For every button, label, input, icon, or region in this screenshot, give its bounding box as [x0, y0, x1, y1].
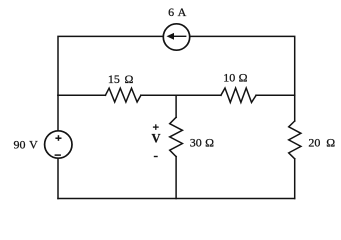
svg-text:Ω: Ω — [205, 135, 214, 149]
wire top-left segment — [58, 36, 163, 95]
svg-text:20: 20 — [308, 136, 320, 150]
wire middle center — [141, 94, 221, 96]
svg-text:90: 90 — [14, 138, 26, 152]
current source arrow shaft — [172, 35, 187, 37]
wire left above source — [57, 95, 59, 131]
svg-text:Ω: Ω — [239, 70, 248, 84]
label minus of V — [154, 156, 158, 158]
svg-text:10: 10 — [223, 70, 235, 84]
wire center bottom — [175, 157, 177, 199]
svg-text:15: 15 — [108, 72, 120, 86]
svg-text:6: 6 — [168, 5, 174, 19]
svg-text:V: V — [151, 131, 160, 145]
wire center top — [175, 95, 177, 117]
voltage source 90V circle — [45, 131, 72, 158]
resistor R 10ohm zigzag — [221, 88, 256, 102]
voltage source minus sign — [55, 154, 61, 156]
svg-text:A: A — [178, 5, 187, 19]
resistor R 20ohm zigzag — [289, 121, 301, 159]
resistor R 15ohm zigzag — [105, 88, 140, 102]
svg-text:V: V — [29, 138, 38, 152]
wire left below source — [57, 158, 59, 198]
wire right below R20 — [294, 159, 296, 199]
voltage source plus sign — [55, 135, 61, 141]
current source 6A circle — [163, 24, 189, 50]
wire middle right — [256, 94, 295, 96]
resistor R 30ohm zigzag — [170, 117, 183, 156]
svg-text:30: 30 — [190, 135, 202, 149]
label plus of V — [153, 124, 159, 130]
wire right above R20 — [294, 95, 296, 121]
wire middle left — [58, 94, 105, 96]
svg-text:Ω: Ω — [326, 136, 335, 150]
wire bottom — [58, 198, 295, 200]
svg-text:Ω: Ω — [124, 72, 133, 86]
current source arrow head — [167, 33, 174, 39]
wire top-right segment — [190, 36, 295, 95]
